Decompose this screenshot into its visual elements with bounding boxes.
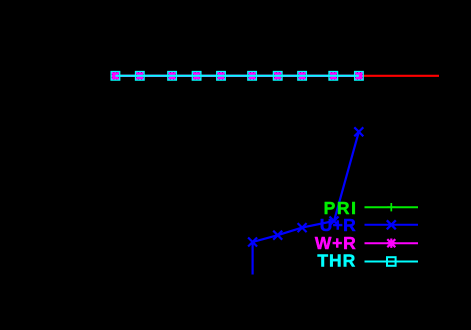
blue U+R curve	[253, 132, 359, 275]
blue U+R cross markers	[248, 127, 363, 246]
svg-text:THR: THR	[317, 251, 356, 271]
green PRI line	[115, 75, 359, 77]
green PRI plus markers	[111, 72, 363, 80]
magenta W+R asterisk markers	[111, 71, 363, 80]
red series line (no legend entry)	[357, 75, 439, 77]
cyan THR square markers	[111, 72, 363, 81]
magenta W+R line	[115, 75, 359, 77]
cyan THR line	[115, 75, 359, 77]
